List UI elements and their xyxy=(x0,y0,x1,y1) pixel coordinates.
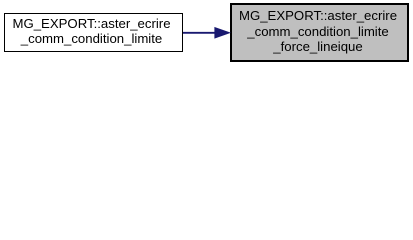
node: caller MG_EXPORT::aster_ecrire_comm_condition_limite xyxy=(4,13,183,52)
node: current MG_EXPORT::aster_ecrire_comm_condition_limite_force_lineique (grey filled) xyxy=(230,3,409,62)
edge: call arrow from caller node to current node (midnightblue) xyxy=(0,0,413,67)
wire: edge shaft xyxy=(183,32,216,34)
arrowhead xyxy=(215,28,230,39)
